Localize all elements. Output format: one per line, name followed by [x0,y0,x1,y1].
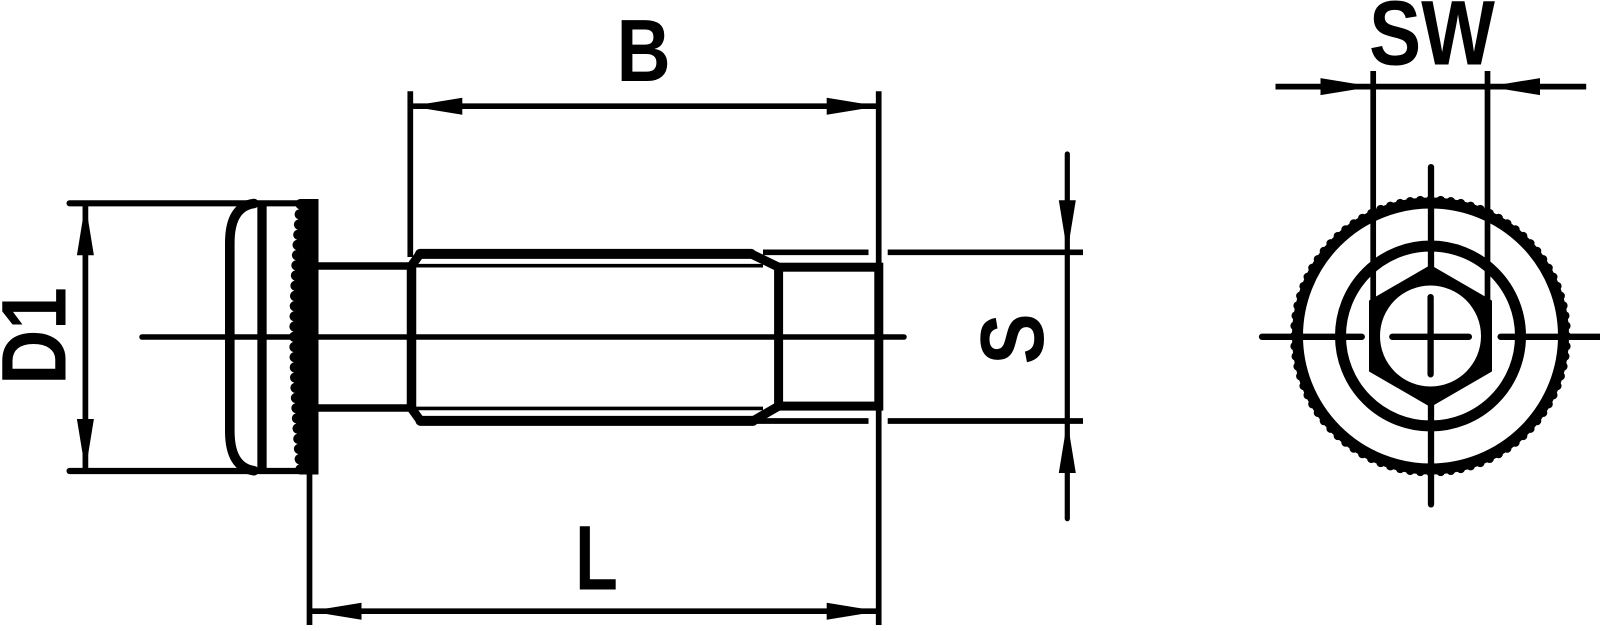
thread root bottom [412,407,764,411]
L extension line left [307,474,313,625]
B extension line left [407,91,413,257]
L arrow right [827,603,879,620]
SW arrow pointing left [1488,78,1540,95]
B arrow right [827,98,879,115]
svg-text:S: S [961,313,1062,364]
B arrow left [410,98,462,115]
thread root top [412,264,764,268]
D1 extension + head top edge [70,200,314,206]
thread chamfer bottom-left [412,408,421,421]
head chamfer line [257,206,266,469]
thread start line [407,264,417,410]
svg-text:B: B [617,3,671,101]
center cross vertical [1427,297,1433,374]
S dimension line [1065,154,1070,519]
head left outline [230,204,254,471]
B dimension line [410,103,878,109]
S arrow up (tip at bottom ext) [1059,421,1076,473]
horizontal centerline left [1262,334,1362,340]
svg-text:L: L [575,507,618,609]
horizontal centerline right [1501,334,1600,340]
thread crest top [420,249,751,259]
vertical centerline bottom [1428,404,1434,504]
S extension bottom [752,418,869,424]
end view knurl teeth [1290,196,1571,477]
svg-text:D1: D1 [0,287,85,385]
end view hex socket [1370,266,1491,406]
knurl band (side view) [289,199,318,475]
svg-text:SW: SW [1369,0,1495,85]
end view outer knurled circle [1298,203,1564,469]
center cross horizontal [1392,334,1469,340]
D1 dimension line [83,203,89,471]
D1 extension + head bottom edge [70,468,314,474]
neck bottom line [310,404,412,412]
S extension top [763,249,869,255]
end view middle circle [1341,246,1521,426]
L dimension line [310,608,879,614]
end view socket circle [1380,286,1481,387]
L arrow left [310,603,362,620]
thread chamfer bottom-right [753,406,779,421]
SW dimension line [1276,84,1587,90]
thread chamfer top-right [751,254,778,267]
vertical centerline top [1428,167,1434,272]
tip rectangle [779,267,879,406]
D1 arrow up [77,203,94,255]
S arrow down (tip at top ext) [1059,200,1076,252]
neck top line [310,262,412,270]
SW extension right [1485,71,1491,345]
thread crest bottom [421,416,754,426]
centerline side view [142,334,904,340]
B/L extension line right [876,91,882,625]
SW extension left [1370,71,1376,345]
D1 arrow down [77,419,94,471]
thread chamfer top-left [412,254,421,266]
SW arrow pointing right [1321,78,1373,95]
